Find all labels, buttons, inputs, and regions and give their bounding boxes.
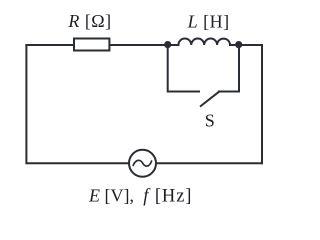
wire: left side + bottom-left (source to top-left corner) [26, 45, 128, 163]
wire: node A to inductor [168, 44, 179, 46]
wire: inductor to node B [230, 44, 239, 46]
wire: bottom-right corner to source [156, 162, 262, 164]
svg-text:R [Ω]: R [Ω] [67, 11, 111, 31]
wire: node B to top-right corner, down right side [239, 45, 262, 163]
wire: resistor to node A [109, 44, 167, 46]
inductor L1 [178, 39, 230, 45]
svg-text:S: S [205, 111, 215, 131]
wire: top-left corner to resistor [26, 44, 74, 46]
switch S blade [201, 92, 219, 106]
svg-text:E [V],f [Hz]: E [V],f [Hz] [88, 185, 192, 206]
wire: switch branch right (node B down, then left) [219, 45, 239, 92]
resistor R1 [74, 39, 109, 51]
node B (inductor right junction) [235, 41, 242, 48]
svg-text:L [H]: L [H] [187, 12, 230, 32]
node A (inductor left junction) [164, 41, 171, 48]
AC source E [129, 150, 156, 177]
wire: switch branch left (node A down, then right) [168, 45, 199, 92]
